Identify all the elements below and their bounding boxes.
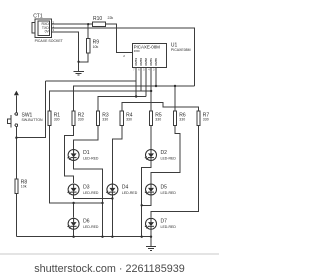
chip pin P3: [145, 68, 147, 97]
wire R8 bottom to bus: [15, 193, 17, 236]
svg-text:330: 330: [203, 118, 209, 122]
wire D5 bottom: [142, 195, 151, 205]
svg-text:OUT2: OUT2: [144, 58, 148, 66]
ground GND1: [73, 71, 84, 75]
LED D6: [67, 218, 79, 229]
svg-text:LED-RED: LED-RED: [83, 156, 99, 160]
watermark separator: [0, 254, 219, 255]
wire R4 to R7 feed: [122, 102, 199, 111]
wire R5 to D2: [150, 126, 152, 150]
switch SW1 actuator: [10, 115, 12, 128]
wire R4 jog to D4: [112, 126, 121, 184]
wire CT1 pin2 RXD to R10: [51, 23, 92, 25]
wire D6 bottom: [73, 229, 75, 237]
svg-text:OUT4: OUT4: [134, 58, 138, 66]
chip pin P1: [135, 68, 137, 97]
svg-text:D6: D6: [83, 219, 90, 225]
wire CT1 pin1 TXD rail to right loop: [51, 28, 194, 86]
svg-text:330: 330: [179, 118, 185, 122]
svg-text:22k: 22k: [108, 16, 114, 20]
resistor R1 body: [48, 111, 51, 126]
wire R10 output to chip RXD pin: [105, 24, 132, 52]
wire D3 bottom: [74, 195, 113, 198]
svg-text:330: 330: [78, 118, 84, 122]
svg-text:LED-RED: LED-RED: [83, 191, 99, 195]
svg-text:D4: D4: [122, 184, 129, 190]
svg-text:0V: 0V: [45, 30, 50, 34]
resistor R2 body: [72, 111, 75, 126]
power arrow: [14, 91, 19, 96]
wire D6 feed: [73, 203, 75, 218]
svg-text:D2: D2: [161, 150, 168, 156]
LED D1: [67, 150, 79, 161]
LED D7: [145, 218, 157, 229]
chip pin P4: [150, 68, 152, 111]
wire R6 top stub: [174, 86, 176, 111]
switch SW1 contacts: [15, 113, 18, 116]
wire R9 branch: [87, 24, 89, 38]
svg-text:D1: D1: [83, 150, 90, 156]
wire R6 jog to D5: [151, 126, 180, 184]
LED D2: [145, 150, 157, 161]
svg-text:10k: 10k: [21, 185, 27, 189]
wire R9 bottom to 0V: [79, 53, 89, 62]
wire SW1 branch to chip: [16, 81, 45, 138]
svg-text:shutterstock.com · 2261185939: shutterstock.com · 2261185939: [34, 263, 184, 275]
svg-text:LED-RED: LED-RED: [161, 156, 177, 160]
resistor R3 body: [96, 111, 99, 126]
wire D1 bottom to bus: [74, 161, 103, 237]
connector CT1 inner box: [38, 21, 50, 36]
svg-text:LED-RED: LED-RED: [122, 191, 138, 195]
resistor R6 body: [173, 111, 176, 126]
wire SW1 bottom rail: [15, 127, 17, 180]
wire D4 bottom to bus: [111, 195, 113, 236]
svg-text:PICAXE SOCKET: PICAXE SOCKET: [35, 39, 64, 43]
chip U1 box: [132, 43, 166, 67]
resistor R4 body: [120, 111, 123, 126]
svg-text:OUT1: OUT1: [149, 58, 153, 66]
connector CT1 outer box: [35, 19, 51, 38]
svg-text:CT1: CT1: [33, 14, 43, 20]
svg-text:10k: 10k: [93, 45, 99, 49]
svg-text:330: 330: [102, 118, 108, 122]
power arrow stem: [15, 95, 17, 112]
wire R3 jog to D1: [74, 126, 98, 150]
wire R3 top to chip pin: [98, 97, 146, 112]
LED D5: [145, 184, 157, 195]
resistor R9 body: [87, 39, 90, 54]
svg-text:LED-RED: LED-RED: [161, 191, 177, 195]
LED D3: [67, 184, 79, 195]
wire CT1 pin3 0V down to ground: [51, 32, 78, 71]
ground GND2: [146, 237, 156, 251]
svg-text:330: 330: [155, 118, 161, 122]
svg-text:R10: R10: [93, 16, 102, 22]
svg-text:LED-RED: LED-RED: [161, 225, 177, 229]
svg-text:PICAXE08M: PICAXE08M: [171, 48, 191, 52]
svg-text:SW-BUTTON: SW-BUTTON: [22, 118, 44, 122]
resistor R5 body: [149, 111, 152, 126]
labels R1-R7: [54, 112, 210, 118]
svg-text:RXD: RXD: [134, 49, 140, 53]
svg-text:OUT0: OUT0: [154, 58, 158, 66]
wire D2 bottom to bus: [142, 161, 151, 237]
wire R1 jog across: [49, 126, 102, 204]
wire R2 jog to D3: [65, 126, 74, 184]
svg-text:OUT3: OUT3: [139, 58, 143, 66]
labels D1-D7: [83, 150, 167, 225]
svg-text:330: 330: [126, 118, 132, 122]
chip pin P5: [155, 68, 157, 86]
wire SW1 node to chip pin P1: [46, 80, 137, 82]
resistor R7 body: [197, 111, 200, 126]
wire ground bus: [16, 236, 151, 238]
wire R2 serial-out net: [74, 86, 195, 111]
svg-text:D3: D3: [83, 184, 90, 190]
chip pin numbers: [133, 70, 155, 72]
wire D7 bottom: [150, 229, 152, 237]
svg-text:D5: D5: [161, 184, 168, 190]
svg-text:LED-RED: LED-RED: [83, 225, 99, 229]
LED D4: [106, 184, 118, 195]
wire R7 jog to D7: [151, 126, 199, 218]
resistor R8 body: [15, 179, 18, 193]
svg-text:330: 330: [54, 118, 60, 122]
connector CT1 left tab: [32, 23, 35, 33]
resistor R10 body: [93, 22, 106, 26]
wire R1 top to chip pin: [49, 91, 151, 111]
svg-text:D7: D7: [161, 219, 168, 225]
chip pin P2: [140, 68, 142, 91]
